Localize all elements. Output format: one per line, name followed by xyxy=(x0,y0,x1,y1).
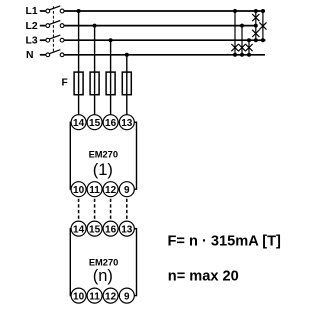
terminal 13 (U2) xyxy=(119,221,134,236)
svg-text:(1): (1) xyxy=(93,161,113,179)
wire L1 stub xyxy=(40,10,46,12)
terminal 11 (U2) xyxy=(87,288,102,303)
fuse F3 xyxy=(106,72,115,95)
svg-text:15: 15 xyxy=(89,224,101,235)
node N/F4 junction xyxy=(125,53,129,57)
node L2 load junction xyxy=(240,24,244,28)
terminal 15 (U1) xyxy=(87,115,102,130)
terminal 14 (U2) xyxy=(71,221,86,236)
wire drop L2 to fuse F2 xyxy=(94,26,96,116)
node L3/F3 junction xyxy=(109,38,113,42)
wire rail L3 xyxy=(64,39,266,41)
svg-text:14: 14 xyxy=(73,224,85,235)
svg-text:12: 12 xyxy=(105,291,117,302)
svg-text:10: 10 xyxy=(73,185,85,196)
fuse F2 xyxy=(90,72,99,95)
switch S1 mechanical coupling (dashed) xyxy=(52,6,54,52)
load X L1-L2 xyxy=(252,14,259,21)
wire drop N to fuse F4 xyxy=(126,55,128,115)
svg-text:13: 13 xyxy=(121,224,133,235)
node L1 junction D xyxy=(254,9,258,13)
wire load drop L1-N xyxy=(234,11,236,55)
wire load drop L3-N xyxy=(248,40,250,55)
terminal 11 (U1) xyxy=(87,182,102,197)
switch S1 pole L3 xyxy=(46,35,64,42)
svg-text:16: 16 xyxy=(105,224,117,235)
load X L2-L3 xyxy=(252,30,259,37)
node L3 junction E xyxy=(261,38,265,42)
meter EM270 (n) box U2 xyxy=(70,229,136,296)
load X L1-L3 xyxy=(259,22,266,29)
svg-text:9: 9 xyxy=(124,291,130,302)
dashed wire 12 to 16 (U1-U2) xyxy=(110,199,112,221)
svg-text:16: 16 xyxy=(105,118,117,129)
node L2 junction D xyxy=(254,24,258,28)
svg-text:11: 11 xyxy=(89,185,100,196)
svg-text:13: 13 xyxy=(121,118,133,129)
wire L2 stub xyxy=(40,25,46,27)
node N load junction 2 xyxy=(240,53,244,57)
terminal 10 (U1) xyxy=(71,182,86,197)
load X L3-N xyxy=(245,44,252,51)
terminal 16 (U2) xyxy=(103,221,118,236)
node N load junction 1 xyxy=(233,53,237,57)
wire rail L2 xyxy=(64,25,257,27)
node L1 junction E xyxy=(261,9,265,13)
fuse F4 xyxy=(122,72,131,95)
terminal 10 (U2) xyxy=(71,288,86,303)
svg-text:10: 10 xyxy=(73,291,85,302)
svg-text:(n): (n) xyxy=(93,267,113,285)
wire drop L3 to fuse F3 xyxy=(110,40,112,115)
terminal 14 (U1) xyxy=(71,115,86,130)
svg-text:14: 14 xyxy=(73,118,85,129)
wire load drop L1-L2-L3 xyxy=(255,11,257,40)
wire load drop L2-N xyxy=(241,26,243,55)
svg-text:L2: L2 xyxy=(26,21,38,32)
switch S1 pole N xyxy=(46,50,64,57)
load X L1-N xyxy=(231,44,238,51)
svg-text:12: 12 xyxy=(105,185,117,196)
svg-text:n= max 20: n= max 20 xyxy=(168,268,239,284)
wire rail L1 xyxy=(64,10,265,12)
node L3 load junction xyxy=(247,38,251,42)
svg-text:F= n · 315mA [T]: F= n · 315mA [T] xyxy=(168,233,282,249)
switch S1 pole L1 xyxy=(46,6,64,13)
switch S1 pole L2 xyxy=(46,21,64,28)
dashed wire 10 to 14 (U1-U2) xyxy=(78,199,80,221)
terminal 15 (U2) xyxy=(87,221,102,236)
wire load drop L1-L3 xyxy=(262,11,264,40)
svg-text:F: F xyxy=(62,78,68,89)
terminal 12 (U2) xyxy=(103,288,118,303)
load X L2-N xyxy=(238,44,245,51)
terminal 9 (U1) xyxy=(119,182,134,197)
dashed wire 11 to 15 (U1-U2) xyxy=(94,199,96,221)
wire L3 stub xyxy=(40,39,46,41)
node L1/F1 junction xyxy=(77,9,81,13)
meter EM270 (1) box U1 xyxy=(70,122,136,189)
svg-text:EM270: EM270 xyxy=(89,150,118,160)
node L3 junction D xyxy=(254,38,258,42)
terminal 12 (U1) xyxy=(103,182,118,197)
svg-text:15: 15 xyxy=(89,118,101,129)
wire drop L1 to fuse F1 xyxy=(78,11,80,115)
node N load junction 3 xyxy=(247,53,251,57)
dashed wire 9 to 13 (U1-U2) xyxy=(126,199,128,221)
svg-text:L1: L1 xyxy=(26,6,38,17)
svg-text:11: 11 xyxy=(89,291,100,302)
fuse F1 xyxy=(74,72,83,95)
terminal 16 (U1) xyxy=(103,115,118,130)
node L2/F2 junction xyxy=(93,24,97,28)
svg-text:N: N xyxy=(26,50,34,61)
svg-text:L3: L3 xyxy=(26,35,38,46)
terminal 9 (U2) xyxy=(119,288,134,303)
svg-text:9: 9 xyxy=(124,185,130,196)
wire N stub xyxy=(40,54,46,56)
terminal 13 (U1) xyxy=(119,115,134,130)
node L1 load junction xyxy=(233,9,237,13)
wire rail N xyxy=(64,54,265,56)
